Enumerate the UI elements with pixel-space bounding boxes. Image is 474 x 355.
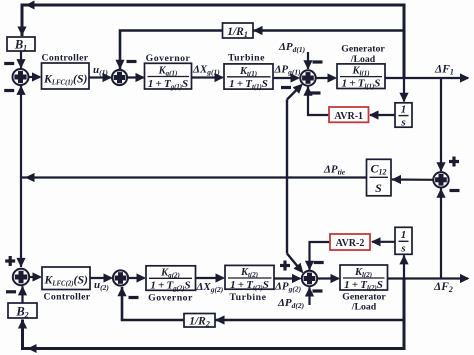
wire Turbine-2 to summing junction S6 bbox=[274, 274, 302, 283]
wire 1/s to AVR-2 bbox=[371, 237, 395, 246]
block Generator-1 Kl(1)/(1+Tl(1)S) bbox=[337, 44, 385, 91]
wire 1/s to AVR-1 bbox=[369, 110, 395, 119]
wire S4 to Controller-2 bbox=[29, 272, 42, 281]
block Turbine-1 Kt(1)/(1+Tt(1)S) bbox=[224, 53, 273, 91]
svg-text:AVR-2: AVR-2 bbox=[336, 238, 365, 249]
wire 1/R1 feedback bbox=[115, 26, 404, 69]
sign minus (ΔPtie into S3) bbox=[281, 86, 291, 89]
block B1 bbox=[7, 37, 35, 52]
block integrator 1/s (area1) bbox=[395, 103, 412, 129]
sign minus (ΔPd(2) into S6) bbox=[313, 289, 323, 292]
svg-text:/Load: /Load bbox=[351, 301, 377, 312]
svg-text:Governor: Governor bbox=[146, 53, 191, 64]
label ΔF2 bbox=[433, 281, 453, 294]
svg-text:1 + Tg(2)S: 1 + Tg(2)S bbox=[150, 280, 190, 293]
sign minus (B1 into S1) bbox=[4, 62, 14, 65]
sign plus (ΔPtie into S4) bbox=[5, 256, 15, 266]
sign minus (1/R2 into S5) bbox=[129, 296, 139, 299]
block AVR-2 bbox=[330, 234, 370, 250]
wire AVR-2 to S6 bbox=[305, 242, 330, 270]
summing junction S2 (governor1 input) bbox=[112, 70, 127, 85]
sign minus (ΔF2 into S7) bbox=[450, 189, 460, 192]
wire S5 to Governor-2 bbox=[128, 273, 146, 282]
svg-text:S: S bbox=[375, 181, 382, 195]
svg-text:1: 1 bbox=[401, 104, 407, 116]
svg-text:Controller: Controller bbox=[42, 53, 89, 64]
wire Governor-2 to Turbine-2 bbox=[196, 273, 226, 282]
block B2 bbox=[8, 303, 37, 319]
wire ΔF2 output bbox=[388, 274, 470, 283]
wire ΔF1 output bbox=[385, 73, 470, 82]
wire ΔPtie branch down to S6 (diagonal) bbox=[287, 178, 303, 274]
wire B2 to S4 bbox=[18, 286, 27, 303]
wire ΔF2 branch up to S7 bbox=[436, 188, 445, 278]
svg-text:1 + Tt(1)S: 1 + Tt(1)S bbox=[229, 78, 268, 91]
label ΔPd(2) bbox=[277, 297, 305, 310]
svg-text:Generator: Generator bbox=[341, 44, 385, 55]
block Governor-1 Kg(1)/(1+Tg(1)S) bbox=[145, 53, 192, 91]
svg-text:1 + Tl(1)S: 1 + Tl(1)S bbox=[342, 78, 381, 91]
summing junction S6 (generator2 input) bbox=[302, 271, 317, 286]
svg-text:Turbine: Turbine bbox=[230, 292, 267, 303]
block integrator 1/s (area2) bbox=[395, 227, 412, 254]
sign minus (1/R1 into S2) bbox=[127, 60, 137, 63]
svg-text:1: 1 bbox=[401, 229, 407, 241]
label ΔPg(2) bbox=[274, 281, 302, 294]
wire ΔF2 bottom feedback to B2 bbox=[18, 279, 404, 354]
label u(1) bbox=[93, 64, 108, 77]
svg-text:1 + Tg(1)S: 1 + Tg(1)S bbox=[148, 78, 188, 91]
svg-text:1 + Tt(2)S: 1 + Tt(2)S bbox=[230, 279, 269, 292]
svg-text:1 + Tl(2)S: 1 + Tl(2)S bbox=[344, 279, 383, 292]
summing junction S5 (governor2 input) bbox=[113, 270, 128, 285]
wire Governor-1 to Turbine-1 bbox=[192, 73, 225, 82]
wire ΔPtie line bbox=[22, 173, 367, 182]
summing junction S7 (tie-line) bbox=[433, 172, 448, 187]
sign minus (AVR-1 into S3) bbox=[311, 91, 321, 94]
sign plus (ΔF1 into S7) bbox=[449, 157, 459, 167]
wire Controller-1 to summing junction S2 bbox=[89, 73, 112, 82]
block Generator-2 Kl(2)/(1+Tl(2)S) bbox=[340, 265, 388, 312]
wire S6 to Generator-2 bbox=[317, 274, 340, 283]
label ΔPg(1) bbox=[274, 63, 302, 76]
wire ΔPd(2) into S6 bbox=[305, 287, 314, 305]
summing junction S3 (generator1 input) bbox=[300, 70, 315, 85]
summing junction S4 (area2 ACE) bbox=[13, 269, 29, 285]
svg-text:Governor: Governor bbox=[148, 293, 193, 304]
summing junction S1 (area1 ACE) bbox=[13, 69, 29, 85]
svg-text:s: s bbox=[400, 117, 405, 129]
sign plus (ΔPtie into S6) bbox=[280, 261, 290, 271]
sign minus (B2 into S4) bbox=[6, 290, 16, 293]
wire S2 to Governor-1 bbox=[127, 73, 145, 82]
label ΔF1 bbox=[434, 64, 454, 77]
block 1/R2 bbox=[184, 314, 215, 329]
wire ΔPtie down to S4 bbox=[16, 178, 25, 268]
label u(2) bbox=[94, 279, 109, 292]
block Controller-2 K_LFC(2)(S) bbox=[42, 267, 91, 303]
wire 1/R2 feedback bbox=[117, 287, 404, 325]
label ΔXg(2) bbox=[196, 281, 224, 294]
wire S3 to Generator-1 bbox=[316, 73, 337, 82]
svg-text:Turbine: Turbine bbox=[228, 53, 265, 64]
wire Turbine-1 to summing junction S3 bbox=[273, 73, 300, 82]
block Controller-1 K_LFC(1)(S) bbox=[42, 53, 90, 90]
wire ΔPtie branch up to S3 (diagonal) bbox=[287, 84, 303, 178]
wire S7 to block C12/S bbox=[392, 175, 434, 184]
sign minus (AVR-2 into S6) bbox=[314, 261, 324, 264]
wire S1 to Controller-1 bbox=[29, 72, 42, 81]
sign minus (ΔPd(1) into S3) bbox=[313, 60, 323, 63]
wire AVR-1 to S3 bbox=[303, 86, 329, 115]
wire B1 to summing junction S1 bbox=[16, 51, 25, 69]
svg-text:AVR-1: AVR-1 bbox=[334, 111, 363, 122]
block Governor-2 Kg(2)/(1+Tg(2)S) bbox=[146, 266, 196, 304]
label ΔXg(1) bbox=[192, 63, 220, 76]
label ΔPd(1) bbox=[278, 41, 306, 54]
sign minus (ΔPtie into S1) bbox=[4, 89, 14, 92]
block C12/S bbox=[367, 159, 392, 196]
label ΔPtie bbox=[323, 164, 346, 177]
svg-text:Controller: Controller bbox=[44, 292, 91, 303]
wire ΔF1 branch down to tie junction S7 bbox=[436, 78, 445, 172]
svg-text:s: s bbox=[400, 243, 405, 255]
wire Controller-2 to summing junction S5 bbox=[90, 273, 113, 282]
wire ΔPtie up into S1 bbox=[16, 85, 25, 177]
block Turbine-2 Kt(2)/(1+Tt(2)S) bbox=[225, 265, 274, 303]
svg-text:/Load: /Load bbox=[350, 54, 376, 65]
block AVR-1 bbox=[329, 107, 369, 122]
wire ΔF1 branch to integrator 1/s bbox=[399, 78, 408, 102]
wire ΔF1 top feedback to B1 bbox=[17, 1, 404, 79]
wire ΔPd(1) into S3 bbox=[303, 52, 312, 70]
block 1/R1 bbox=[223, 23, 254, 39]
wire ΔF2 branch to integrator 1/s bbox=[399, 255, 408, 279]
